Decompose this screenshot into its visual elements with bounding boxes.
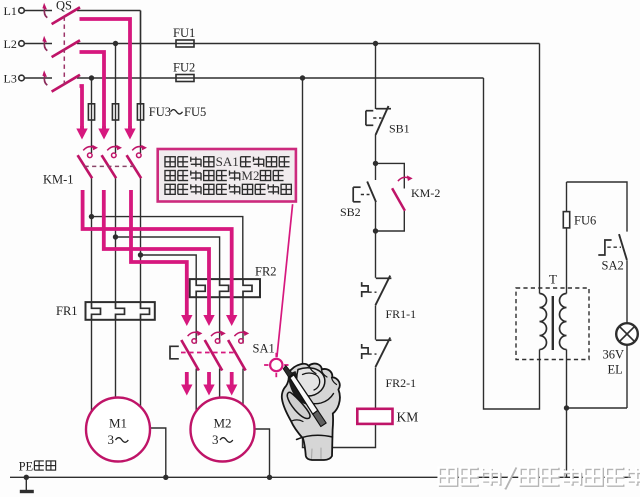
svg-text:3: 3 xyxy=(212,432,219,447)
svg-text:L1: L1 xyxy=(4,4,17,18)
svg-text:L3: L3 xyxy=(4,72,17,86)
svg-text:FU1: FU1 xyxy=(173,26,195,40)
svg-text:SA1: SA1 xyxy=(253,341,275,355)
svg-text:QS: QS xyxy=(56,0,72,13)
svg-text:EL: EL xyxy=(608,363,623,377)
svg-text:FU2: FU2 xyxy=(173,61,195,75)
svg-text:FR2: FR2 xyxy=(255,265,277,279)
svg-text:SB1: SB1 xyxy=(389,122,410,136)
svg-text:FR1: FR1 xyxy=(56,304,78,318)
svg-text:KM: KM xyxy=(397,410,419,425)
svg-text:L2: L2 xyxy=(4,37,17,51)
svg-text:FU3: FU3 xyxy=(149,105,171,119)
svg-text:36V: 36V xyxy=(603,348,625,362)
svg-text:FU6: FU6 xyxy=(574,214,596,228)
svg-text:SB2: SB2 xyxy=(340,205,361,219)
svg-text:3: 3 xyxy=(108,432,115,447)
svg-text:FR2-1: FR2-1 xyxy=(386,376,417,390)
svg-text:M2: M2 xyxy=(213,416,231,431)
svg-text:M2: M2 xyxy=(241,168,259,183)
svg-text:T: T xyxy=(549,272,557,287)
svg-text:M1: M1 xyxy=(109,416,127,431)
svg-text:SA2: SA2 xyxy=(602,259,624,273)
svg-text:KM-2: KM-2 xyxy=(411,186,440,200)
svg-text:FU5: FU5 xyxy=(184,105,206,119)
svg-text:PE: PE xyxy=(19,460,34,474)
svg-text:KM-1: KM-1 xyxy=(43,173,74,187)
svg-text:FR1-1: FR1-1 xyxy=(386,307,417,321)
svg-text:SA1: SA1 xyxy=(216,154,239,169)
